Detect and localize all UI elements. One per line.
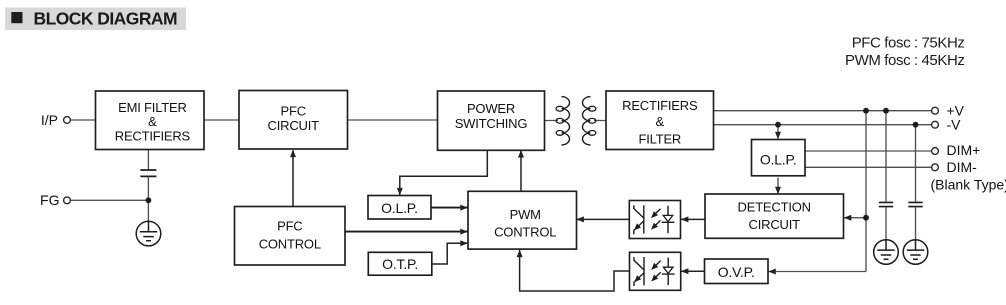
svg-text:DIM+: DIM+ (947, 142, 981, 158)
svg-text:O.T.P.: O.T.P. (382, 256, 418, 272)
svg-text:&: & (148, 114, 157, 129)
svg-text:SWITCHING: SWITCHING (455, 116, 528, 131)
svg-text:FILTER: FILTER (638, 131, 681, 146)
svg-text:RECTIFIERS: RECTIFIERS (622, 98, 698, 113)
svg-text:PWM fosc : 45KHz: PWM fosc : 45KHz (845, 52, 964, 69)
svg-text:-V: -V (947, 116, 962, 132)
svg-text:DIM-: DIM- (947, 159, 978, 175)
svg-text:FG: FG (40, 192, 59, 208)
svg-text:PFC fosc : 75KHz: PFC fosc : 75KHz (852, 35, 965, 52)
svg-text:BLOCK DIAGRAM: BLOCK DIAGRAM (34, 9, 178, 29)
svg-text:&: & (656, 114, 665, 129)
svg-text:DETECTION: DETECTION (738, 200, 811, 215)
svg-text:O.V.P.: O.V.P. (718, 264, 755, 280)
svg-text:CIRCUIT: CIRCUIT (749, 217, 801, 232)
svg-text:PFC: PFC (280, 104, 305, 119)
svg-text:(Blank Type): (Blank Type) (931, 176, 1006, 192)
svg-text:CIRCUIT: CIRCUIT (268, 118, 320, 133)
svg-text:POWER: POWER (467, 101, 515, 116)
svg-text:CONTROL: CONTROL (259, 236, 321, 251)
svg-text:RECTIFIERS: RECTIFIERS (115, 129, 191, 144)
svg-text:O.L.P.: O.L.P. (760, 152, 797, 168)
svg-text:CONTROL: CONTROL (494, 224, 556, 239)
svg-text:O.L.P.: O.L.P. (381, 200, 418, 216)
svg-text:PFC: PFC (277, 218, 302, 233)
svg-text:I/P: I/P (41, 112, 58, 128)
svg-text:PWM: PWM (510, 207, 541, 222)
